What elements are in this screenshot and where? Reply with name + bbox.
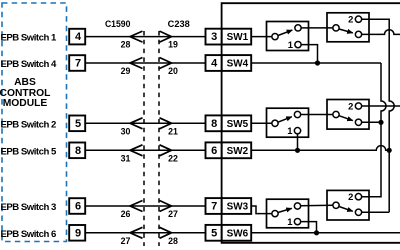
module pin box 5 (EPB Switch 2) [69,116,85,132]
connector chevrons circuit SW4 [130,58,172,69]
switch S1a box [267,22,309,51]
svg-text:5: 5 [211,227,217,239]
switch S1b lower contact [355,31,361,37]
svg-text:5: 5 [75,118,81,130]
svg-text:19: 19 [168,40,178,50]
switch assembly boundary box [222,3,400,243]
switch S1b lever [339,29,353,33]
connector chevrons circuit SW3 [130,201,172,212]
svg-text:6: 6 [75,201,81,213]
svg-text:EPB Switch 2: EPB Switch 2 [1,119,56,130]
wire EPB Switch 5 to SW2 [85,149,205,151]
switch S1a common contact [272,33,278,39]
svg-text:3: 3 [211,31,217,43]
pin box 7 / SW3 (switch assembly) [206,198,252,214]
switch S1b upper contact (2) [355,16,361,22]
wire S3a contact 1 drop to SW6 wire [301,222,317,233]
switch S2a common contact [272,120,278,126]
pin box 4 / SW4 (switch assembly) [206,55,252,71]
switch S3b common contact [333,202,339,208]
svg-text:SW3: SW3 [227,201,249,213]
wire S2a contact 1 drop to SW2 wire [297,134,299,150]
svg-text:1: 1 [287,125,292,136]
svg-text:4: 4 [211,58,218,70]
switch S3a box [267,199,309,228]
svg-text:7: 7 [211,201,217,213]
wire S3a upper contact to S3b common [301,204,333,206]
pin box 5 / SW6 (switch assembly) [206,225,252,241]
svg-text:22: 22 [168,153,178,163]
wire S2b contact 2 out to right edge [362,105,400,107]
wire S1a upper contact to S1b common [301,27,332,29]
svg-text:2: 2 [348,14,353,25]
svg-text:20: 20 [168,66,178,76]
wire EPB Switch 1 to SW1 [85,36,205,38]
wire S1b contact 2 to bus B (hops middle wire) [362,19,394,212]
module pin box 7 (EPB Switch 4) [69,55,85,71]
switch S2b lower contact [355,119,361,125]
switch S2a lever [278,117,292,123]
connector chevrons circuit SW1 [130,31,172,42]
switch S2b lever [339,116,353,121]
switch S3a upper contact [294,203,300,209]
pin box 8 / SW5 (switch assembly) [206,115,252,131]
ABS control module boundary (blue dashed) [2,3,67,242]
svg-text:6: 6 [211,145,217,157]
svg-text:29: 29 [121,66,131,76]
svg-text:CONTROL: CONTROL [0,88,50,99]
junction dot S2a-1 / SW2 wire [295,148,300,153]
switch S2a box [267,108,309,137]
wire S2a upper contact to S2b common [301,114,333,116]
wire SW1 pin to switch S1a [251,36,272,38]
connector C1590 dashed line [143,31,145,246]
wire SW3 pin to switch S3a (jog down) [251,206,272,214]
svg-text:28: 28 [121,40,131,50]
svg-text:27: 27 [121,236,131,246]
svg-text:SW4: SW4 [227,58,249,70]
svg-text:1: 1 [287,216,292,227]
svg-text:MODULE: MODULE [3,98,48,109]
wire S1a contact 1 drop to SW4 wire [301,45,317,63]
wire EPB Switch 2 to SW5 [85,122,205,124]
switch S2b common contact [333,111,339,117]
switch S3b box [327,190,369,220]
connector chevrons circuit SW6 [130,227,172,238]
switch S3a common contact [272,210,278,216]
connector chevrons circuit SW2 [130,145,172,156]
svg-text:SW6: SW6 [227,227,249,239]
wire SW2 pin row (jumps bus A, joins bus B) [251,146,389,151]
wire EPB Switch 6 to SW6 [85,232,205,234]
switch S1a lower contact (1) [295,41,301,47]
bus A vertical (hops middle wire, ends at S3b contact 2) [362,63,386,197]
module pin box 6 (EPB Switch 3) [69,198,85,214]
svg-text:4: 4 [75,31,82,43]
junction dot S2b lower / bus A [378,120,383,125]
wire EPB Switch 4 to SW4 [85,62,205,64]
svg-text:8: 8 [75,145,81,157]
switch S3b lower contact [355,209,361,215]
svg-text:1: 1 [288,39,293,50]
switch S1b box [327,13,369,42]
switch S3a lower contact (1) [294,218,300,224]
svg-text:SW2: SW2 [227,145,249,157]
wire S1b lower contact out (jumps bus B) [362,30,400,35]
svg-text:ABS: ABS [14,77,36,88]
svg-text:2: 2 [348,100,353,111]
pin box 3 / SW1 (switch assembly) [206,29,252,45]
wire S2b lower contact to bus A [362,121,381,123]
svg-text:21: 21 [168,126,178,136]
svg-text:C238: C238 [168,19,190,29]
wire SW5 pin to switch S2a [251,122,272,124]
connector chevrons circuit SW5 [130,118,172,129]
switch S2a lower contact (1) [294,128,300,134]
svg-text:8: 8 [211,118,217,130]
junction dot S3a-1 / SW6 wire [314,230,319,235]
switch S1b common contact [333,25,339,31]
switch S2b upper contact (2) [355,103,361,109]
svg-text:27: 27 [168,209,178,219]
svg-text:30: 30 [121,126,131,136]
svg-text:2: 2 [348,191,353,202]
svg-text:31: 31 [121,153,131,163]
switch S2b box [327,100,369,130]
switch S3b lever [339,207,353,212]
switch S3a lever [278,208,292,212]
pin box 6 / SW2 (switch assembly) [206,142,252,158]
svg-text:7: 7 [75,58,81,70]
switch S2a upper contact [294,111,300,117]
switch S3b upper contact (2) [355,194,361,200]
svg-text:EPB Switch 5: EPB Switch 5 [1,146,57,157]
svg-text:SW5: SW5 [227,118,249,130]
svg-text:EPB Switch 1: EPB Switch 1 [1,33,57,44]
module pin box 8 (EPB Switch 5) [69,143,85,159]
svg-text:SW1: SW1 [227,31,249,43]
junction dot S1a-1 / SW4 wire [315,60,320,65]
wire EPB Switch 3 to SW3 [85,205,205,207]
svg-text:28: 28 [168,236,178,246]
connector C238 dashed line [158,31,160,246]
svg-text:C1590: C1590 [105,19,131,29]
svg-text:9: 9 [75,227,81,239]
svg-text:EPB Switch 6: EPB Switch 6 [1,229,56,240]
module pin box 9 (EPB Switch 6) [69,225,85,241]
switch S1a lever [278,30,292,35]
label ABS CONTROL MODULE [0,77,50,109]
svg-text:26: 26 [121,209,131,219]
svg-text:EPB Switch 4: EPB Switch 4 [1,59,57,70]
wire S3b lower contact to bus B end [362,211,389,213]
junction dot SW2 / bus B [387,148,392,153]
wire SW6 pin row to right edge [251,232,400,234]
module pin box 4 (EPB Switch 1) [69,29,85,45]
wire SW4 pin row to bus A [251,62,381,64]
switch S1a upper contact [295,25,301,31]
svg-text:EPB Switch 3: EPB Switch 3 [1,202,56,213]
